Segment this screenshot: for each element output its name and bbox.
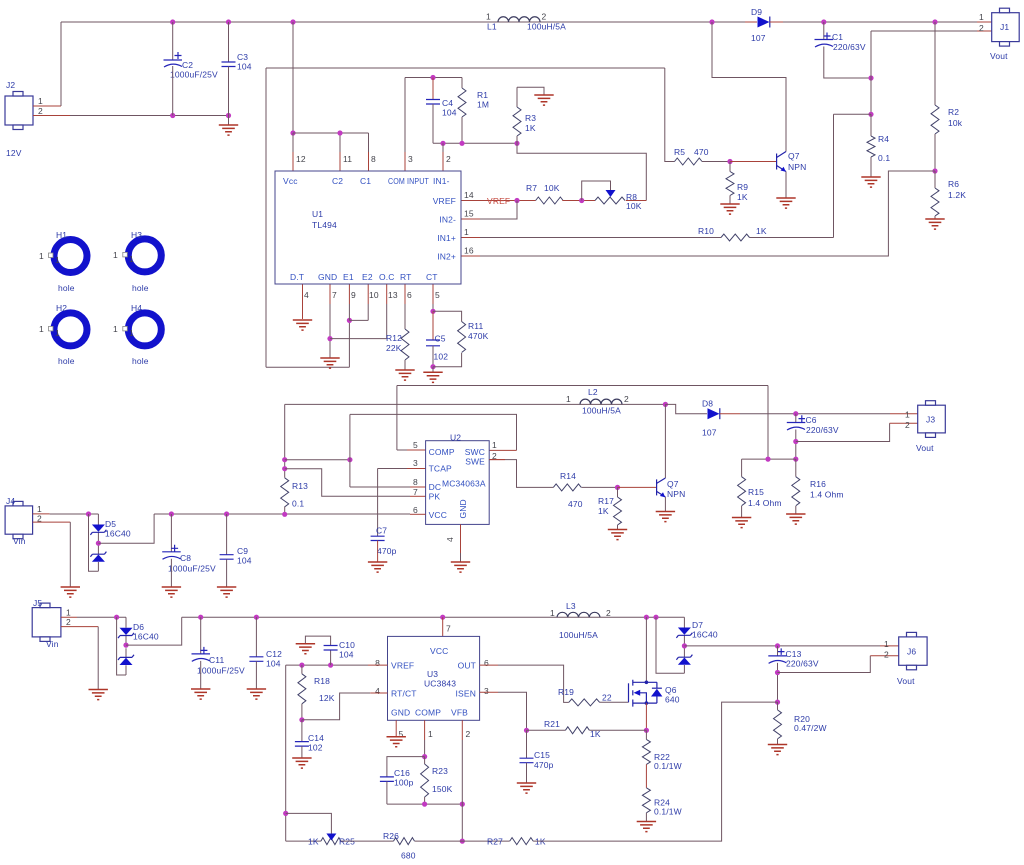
capacitor C5 (432, 311, 434, 340)
wire to DC pin8 (350, 486, 410, 488)
svg-text:7: 7 (446, 624, 451, 634)
svg-text:IN2+: IN2+ (437, 252, 456, 262)
svg-text:VREF: VREF (487, 196, 510, 206)
svg-text:D7: D7 (692, 620, 703, 630)
svg-text:10K: 10K (626, 201, 642, 211)
svg-text:Vout: Vout (990, 51, 1008, 61)
junction (868, 112, 873, 117)
ground at Q7b (656, 512, 675, 522)
svg-text:R27: R27 (487, 837, 503, 847)
svg-text:H3: H3 (131, 230, 142, 240)
svg-text:5: 5 (435, 290, 440, 300)
svg-text:C2: C2 (182, 60, 193, 70)
hole H4 (128, 313, 161, 346)
IC U2 (426, 441, 490, 525)
wire R3 top to ground (517, 87, 544, 95)
svg-text:C15: C15 (534, 750, 550, 760)
svg-text:R5: R5 (674, 147, 685, 157)
svg-text:VCC: VCC (430, 646, 448, 656)
inductor L1 (498, 17, 540, 22)
ground at R20 (768, 745, 787, 755)
svg-text:C3: C3 (237, 52, 248, 62)
svg-text:6: 6 (484, 658, 489, 668)
junction (282, 466, 287, 471)
wire stub J3 pin2 (890, 422, 918, 424)
svg-text:8: 8 (375, 658, 380, 668)
svg-text:H2: H2 (56, 303, 67, 313)
wire VFB pin2 down (461, 720, 463, 740)
svg-text:L2: L2 (588, 387, 598, 397)
junction (430, 364, 435, 369)
svg-text:D8: D8 (702, 399, 713, 409)
svg-text:2: 2 (905, 420, 910, 430)
svg-text:SWC: SWC (465, 447, 485, 457)
svg-text:C16: C16 (394, 768, 410, 778)
svg-text:C5: C5 (435, 334, 446, 344)
svg-text:C7: C7 (376, 526, 387, 536)
wire IN2+ net (480, 171, 935, 256)
resistor R14 (553, 484, 581, 491)
MOSFET Q6 (628, 683, 630, 702)
wire top rail right (783, 21, 977, 23)
U2 pin numbers (413, 440, 497, 542)
ground at R17 (608, 530, 627, 540)
ground at C3 (228, 116, 230, 126)
resistor R9 (729, 162, 731, 172)
svg-text:U2: U2 (450, 433, 461, 443)
svg-text:OUT: OUT (458, 661, 476, 671)
svg-text:1: 1 (39, 251, 44, 261)
hole H1 (54, 240, 87, 273)
wire gnd net J2 (70, 115, 229, 117)
wire D5 bypass (89, 514, 99, 571)
svg-text:4: 4 (375, 686, 380, 696)
U3 pin numbers (375, 624, 489, 740)
svg-text:L1: L1 (487, 22, 497, 32)
svg-text:1: 1 (39, 324, 44, 334)
svg-text:C1: C1 (360, 176, 371, 186)
pin 4 stub U3 (370, 692, 387, 694)
svg-text:J6: J6 (907, 647, 916, 657)
wire after D9 (770, 21, 783, 23)
ground at U3 pin5 (387, 737, 406, 747)
ground at C8 (162, 587, 181, 597)
connector J4 (5, 506, 32, 534)
inductor L3 (557, 612, 600, 617)
svg-text:0.47/2W: 0.47/2W (794, 723, 827, 733)
resistor R17 (617, 487, 619, 497)
junction (765, 457, 770, 462)
junction (663, 402, 668, 407)
wire SWE to R14 (489, 459, 505, 461)
svg-text:220/63V: 220/63V (806, 425, 839, 435)
wire IN1+ to R10 (480, 237, 721, 239)
junction top rail (170, 19, 175, 24)
wire OUT net (480, 664, 498, 666)
wire COMP pin1 down (424, 720, 426, 740)
wire into D9 (745, 21, 757, 23)
diode D9 (758, 17, 770, 28)
junction (727, 159, 732, 164)
svg-text:1K: 1K (308, 837, 319, 847)
pin 8 stub U3 (368, 664, 388, 666)
junction (579, 198, 584, 203)
svg-text:L3: L3 (566, 601, 576, 611)
capacitor C15 (526, 730, 528, 758)
svg-text:6: 6 (413, 505, 418, 515)
capacitor C7 (371, 536, 385, 540)
svg-text:3: 3 (484, 686, 489, 696)
wire J2 pin1 stub (33, 105, 61, 107)
ground at C11 (191, 689, 210, 699)
svg-text:1K: 1K (737, 192, 748, 202)
wire R15/R16 top tie (742, 458, 796, 460)
wire R8 right lead (626, 200, 647, 202)
svg-text:5: 5 (413, 440, 418, 450)
wire stub J1 pin1 (977, 21, 992, 23)
ground at C14 (292, 758, 311, 768)
svg-text:1K: 1K (525, 123, 536, 133)
svg-text:680: 680 (401, 851, 416, 861)
svg-text:RT/CT: RT/CT (391, 689, 417, 699)
junction (793, 411, 798, 416)
wire rail mid (415, 840, 510, 842)
junction (524, 728, 529, 733)
wire J2 pin1 up to rail (60, 22, 62, 106)
wire J5 pin1 stub (61, 616, 77, 618)
wire ISEN net (480, 691, 498, 693)
svg-text:22K: 22K (386, 343, 402, 353)
resistor R21 (527, 729, 566, 731)
wire C1 bottom to J1 pin2 net (824, 47, 871, 79)
svg-text:16: 16 (464, 246, 474, 256)
svg-text:4: 4 (445, 537, 455, 542)
wire step to D8 (665, 404, 707, 413)
svg-text:470K: 470K (468, 331, 489, 341)
wire R19 to gate (600, 701, 629, 703)
pin 5 stub (432, 284, 434, 304)
junction (644, 615, 649, 620)
svg-text:D6: D6 (133, 622, 144, 632)
U1 pin numbers (296, 154, 474, 300)
svg-text:PK: PK (429, 492, 441, 502)
wire J6 pin2 net (778, 656, 871, 673)
svg-text:R12: R12 (386, 333, 402, 343)
svg-text:6: 6 (407, 290, 412, 300)
wire Vcc net vertical (292, 22, 294, 133)
svg-text:2: 2 (606, 608, 611, 618)
svg-text:R4: R4 (878, 134, 889, 144)
svg-text:100uH/5A: 100uH/5A (527, 22, 566, 32)
svg-text:Q7: Q7 (667, 479, 679, 489)
svg-text:E1: E1 (343, 272, 354, 282)
wire VREF red line (461, 200, 536, 202)
svg-text:1: 1 (66, 608, 71, 618)
svg-text:C2: C2 (332, 176, 343, 186)
resistor R16 (795, 459, 797, 477)
svg-text:hole: hole (132, 283, 149, 293)
svg-text:C12: C12 (266, 649, 282, 659)
junction (459, 141, 464, 146)
resistor R1 (461, 78, 463, 89)
svg-text:100uH/5A: 100uH/5A (559, 630, 598, 640)
svg-text:R21: R21 (544, 719, 560, 729)
wire IN1- to R8 right (517, 143, 646, 200)
svg-text:220/63V: 220/63V (786, 659, 819, 669)
ground at Q7 emitter (776, 198, 795, 208)
svg-text:1K: 1K (590, 729, 601, 739)
wire stub J1 pin2 (977, 30, 992, 32)
junction (290, 130, 295, 135)
svg-text:1: 1 (979, 12, 984, 22)
junction (169, 511, 174, 516)
svg-text:1: 1 (129, 254, 134, 264)
ground at J4 pin2 (61, 587, 80, 597)
wire Q7b emitter to ground (664, 497, 666, 511)
svg-text:2: 2 (38, 106, 43, 116)
svg-text:22: 22 (602, 693, 612, 703)
svg-text:1K: 1K (756, 226, 767, 236)
svg-text:1M: 1M (477, 100, 489, 110)
svg-text:GND: GND (318, 272, 337, 282)
junction (775, 700, 780, 705)
svg-text:C8: C8 (180, 553, 191, 563)
svg-text:COM INPUT: COM INPUT (388, 176, 429, 186)
svg-text:102: 102 (434, 352, 449, 362)
U2 pin4 GND (460, 524, 462, 553)
svg-text:1: 1 (550, 608, 555, 618)
svg-text:Vin: Vin (13, 536, 26, 546)
svg-text:hole: hole (58, 356, 75, 366)
wire RT/CT net (302, 693, 370, 720)
IC U3 (388, 636, 480, 720)
wire stub J6 pin2 (870, 655, 898, 657)
junction (337, 130, 342, 135)
pin 15 stub (461, 218, 480, 220)
svg-text:1: 1 (37, 504, 42, 514)
wire D7 out to C13/J6 (684, 645, 880, 647)
svg-text:0.1: 0.1 (878, 153, 890, 163)
junction (226, 19, 231, 24)
svg-text:1.4 Ohm: 1.4 Ohm (810, 490, 844, 500)
junction (775, 670, 780, 675)
svg-text:100uH/5A: 100uH/5A (582, 406, 621, 416)
wire to SWC (350, 414, 517, 450)
svg-text:Q7: Q7 (788, 151, 800, 161)
svg-text:VFB: VFB (451, 708, 468, 718)
capacitor C16 (387, 757, 425, 777)
wire top +12V rail left (61, 21, 745, 23)
pin 9 stub (348, 284, 350, 304)
svg-text:R11: R11 (468, 321, 484, 331)
pin 4 stub (302, 284, 304, 319)
wire C2 bottom lead (172, 66, 174, 116)
U1 pin names (283, 176, 456, 282)
svg-text:7: 7 (413, 487, 418, 497)
wire emitter Q7 down (785, 172, 787, 199)
ground at R3 (534, 95, 553, 105)
wire VREF down left (285, 665, 287, 841)
wire D5 middle out (98, 514, 154, 543)
svg-text:100p: 100p (394, 778, 414, 788)
capacitor C3 (222, 62, 236, 67)
wire pin2 drop (442, 143, 444, 152)
wire J1 pin2 net (871, 31, 977, 114)
junction (283, 811, 288, 816)
svg-text:R26: R26 (383, 831, 399, 841)
capacitor C1 (815, 40, 834, 48)
wire VREF net U3 (286, 664, 368, 666)
wire C3 top lead (228, 22, 230, 62)
svg-text:R10: R10 (698, 226, 714, 236)
potentiometer R8 (595, 197, 625, 204)
svg-text:C14: C14 (308, 733, 324, 743)
svg-text:104: 104 (237, 556, 252, 566)
svg-text:J5: J5 (33, 598, 42, 608)
svg-text:8: 8 (413, 477, 418, 487)
junction (868, 75, 873, 80)
svg-text:16C40: 16C40 (692, 630, 718, 640)
resistor R19 (569, 699, 600, 706)
svg-text:IN2-: IN2- (439, 215, 456, 225)
svg-text:VREF: VREF (433, 196, 456, 206)
svg-text:1: 1 (55, 255, 60, 265)
wire R14 to Q7 base (582, 486, 618, 488)
junction (327, 336, 332, 341)
svg-text:Vout: Vout (916, 443, 934, 453)
svg-text:104: 104 (339, 650, 354, 660)
svg-text:14: 14 (464, 190, 474, 200)
wire base stub Q7 (730, 161, 777, 163)
ground at C15 (517, 783, 536, 793)
wire R7 to R8 (562, 200, 595, 202)
capacitor C14 (301, 720, 303, 742)
ground at pin4 (293, 320, 312, 330)
junction (932, 168, 937, 173)
resistor R24 (642, 788, 650, 813)
resistor R5 (675, 158, 703, 165)
svg-text:R9: R9 (737, 182, 748, 192)
diode D7 dual (683, 636, 685, 674)
ground at J5 pin2 (89, 690, 108, 700)
junction (932, 19, 937, 24)
wire R8 wiper loop (582, 181, 611, 201)
junction (422, 802, 427, 807)
resistor R23 (424, 757, 426, 764)
svg-text:1: 1 (492, 440, 497, 450)
wire C1 top lead (823, 22, 825, 40)
svg-text:104: 104 (237, 62, 252, 72)
svg-text:12: 12 (296, 154, 306, 164)
capacitor C4 (426, 100, 440, 105)
svg-text:C11: C11 (209, 655, 225, 665)
capacitor C11 (200, 617, 202, 654)
resistor R4 (870, 114, 872, 136)
svg-text:D5: D5 (105, 519, 116, 529)
svg-text:ISEN: ISEN (456, 689, 476, 699)
svg-text:2: 2 (624, 394, 629, 404)
wire J4 pin2 to ground (33, 521, 71, 523)
svg-text:1000uF/25V: 1000uF/25V (170, 70, 218, 80)
IC U1 (275, 171, 461, 284)
junction (347, 457, 352, 462)
resistor R10 (721, 234, 750, 241)
wire junction to Q7 collector (664, 404, 666, 478)
wire C16/R23 bottom tie (387, 803, 462, 805)
transistor Q7 (776, 154, 778, 170)
ground at R16 (786, 514, 805, 524)
svg-text:O.C: O.C (379, 272, 395, 282)
svg-text:104: 104 (266, 659, 281, 669)
svg-text:D9: D9 (751, 7, 762, 17)
pin 6 stub (404, 284, 406, 304)
pin 3 stub (404, 152, 406, 171)
svg-text:C13: C13 (786, 649, 802, 659)
svg-text:1: 1 (428, 729, 433, 739)
wire Vin3 rail (182, 617, 685, 627)
wire R25 wiper (286, 813, 332, 833)
capacitor C12 (255, 617, 257, 657)
ground at pin7 (320, 358, 339, 368)
svg-text:COMP: COMP (415, 708, 441, 718)
wire L2 rail left vertical (285, 404, 666, 477)
svg-text:150K: 150K (432, 784, 453, 794)
wire pin13 down (386, 304, 388, 339)
svg-text:3: 3 (413, 458, 418, 468)
resistor R6 (934, 171, 936, 188)
svg-text:E2: E2 (362, 272, 373, 282)
junction (775, 643, 780, 648)
svg-text:U3: U3 (427, 669, 438, 679)
wire C5 to ground (432, 367, 434, 372)
svg-text:15: 15 (464, 209, 474, 219)
wire J4 pin1 stub (33, 513, 50, 515)
svg-text:107: 107 (702, 428, 717, 438)
junction (299, 663, 304, 668)
svg-text:107: 107 (751, 33, 766, 43)
svg-text:1: 1 (55, 328, 60, 338)
svg-text:J4: J4 (6, 496, 15, 506)
connector J3 (918, 405, 946, 433)
svg-text:1: 1 (129, 328, 134, 338)
svg-text:UC3843: UC3843 (424, 679, 456, 689)
svg-text:470: 470 (694, 147, 709, 157)
junction (282, 512, 287, 517)
ground at C9 (217, 587, 236, 597)
ground at C7 (368, 562, 387, 572)
svg-text:hole: hole (58, 283, 75, 293)
svg-text:4: 4 (304, 290, 309, 300)
pin 5 stub (397, 449, 407, 451)
svg-text:R13: R13 (292, 481, 308, 491)
svg-text:NPN: NPN (788, 162, 806, 172)
svg-text:R14: R14 (560, 471, 576, 481)
svg-text:640: 640 (665, 695, 680, 705)
svg-text:TCAP: TCAP (429, 464, 452, 474)
junction (709, 19, 714, 24)
junction (653, 615, 658, 620)
junction (514, 141, 519, 146)
pin 6 stub (410, 513, 426, 515)
junction (821, 19, 826, 24)
svg-text:hole: hole (132, 356, 149, 366)
pin 2 stub (442, 152, 444, 171)
svg-text:MC34063A: MC34063A (442, 479, 486, 489)
junction (514, 198, 519, 203)
svg-text:RT: RT (400, 272, 411, 282)
svg-text:C9: C9 (237, 546, 248, 556)
svg-text:GND: GND (458, 499, 468, 518)
